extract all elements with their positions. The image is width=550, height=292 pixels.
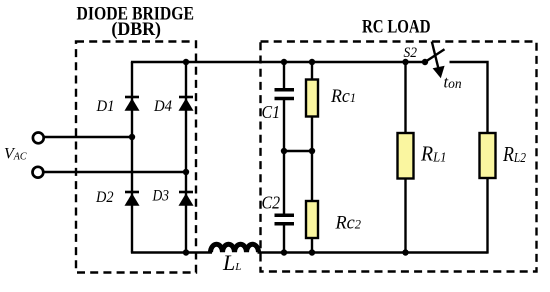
node bottom D3: [183, 249, 189, 255]
diode D2: [125, 192, 140, 206]
svg-text:C1: C1: [262, 102, 281, 122]
wire RL2 bottom: [486, 178, 488, 254]
wire RL1 branch: [404, 62, 406, 134]
node C mid: [281, 148, 287, 154]
svg-text:D3: D3: [152, 188, 169, 205]
switch S2 blade: [425, 49, 445, 62]
RC LOAD dashed box: [261, 42, 537, 272]
node Rc mid: [309, 148, 315, 154]
resistor RL1: [398, 133, 414, 179]
switch S2 hinge node: [422, 59, 428, 65]
svg-text:D1: D1: [96, 98, 115, 115]
node D4 top: [183, 59, 189, 65]
node Rc2 bottom: [309, 249, 315, 255]
wire RC bottom rail: [258, 251, 488, 253]
AC terminal upper: [33, 133, 44, 144]
resistor Rc2: [306, 201, 318, 238]
C1-C2 branch wire: [283, 62, 285, 89]
node C1 top: [281, 59, 287, 65]
node RL1 top: [402, 59, 408, 65]
svg-text:RC LOAD: RC LOAD: [362, 16, 431, 37]
node lower AC junction: [183, 169, 189, 175]
wire lower AC: [44, 171, 186, 173]
svg-text:S2: S2: [404, 45, 418, 61]
node C2 bottom: [281, 249, 287, 255]
svg-text:(DBR): (DBR): [111, 19, 161, 40]
node upper AC junction: [129, 134, 135, 140]
node Rc1 top: [309, 59, 315, 65]
svg-text:D4: D4: [153, 98, 172, 115]
node RL1 bottom: [402, 249, 408, 255]
resistor RL2: [480, 133, 496, 178]
Rc branch wires: [311, 62, 313, 80]
diode D1: [125, 97, 140, 111]
wire DBR bottom rail: [131, 251, 212, 253]
svg-text:Rc2: Rc2: [335, 213, 362, 234]
svg-text:Rc1: Rc1: [330, 86, 356, 107]
diode D4: [179, 97, 194, 111]
arrow ton: [432, 42, 445, 79]
wire mid link: [284, 150, 312, 152]
svg-text:C2: C2: [262, 193, 281, 213]
DBR dashed box: [76, 42, 196, 273]
diode D3: [179, 192, 194, 206]
wire upper AC: [45, 136, 133, 138]
wire D1-D2 branch: [131, 62, 133, 253]
resistor Rc1: [306, 80, 318, 117]
capacitor C2: [275, 215, 295, 224]
wire D4-D3 branch: [185, 62, 187, 253]
capacitor C1: [275, 90, 295, 99]
wire top rail: [131, 61, 425, 63]
svg-text:ton: ton: [444, 73, 462, 92]
wire switch output: [450, 62, 488, 134]
inductor LL: [211, 244, 259, 252]
svg-text:D2: D2: [95, 189, 113, 206]
AC terminal lower: [33, 167, 44, 178]
